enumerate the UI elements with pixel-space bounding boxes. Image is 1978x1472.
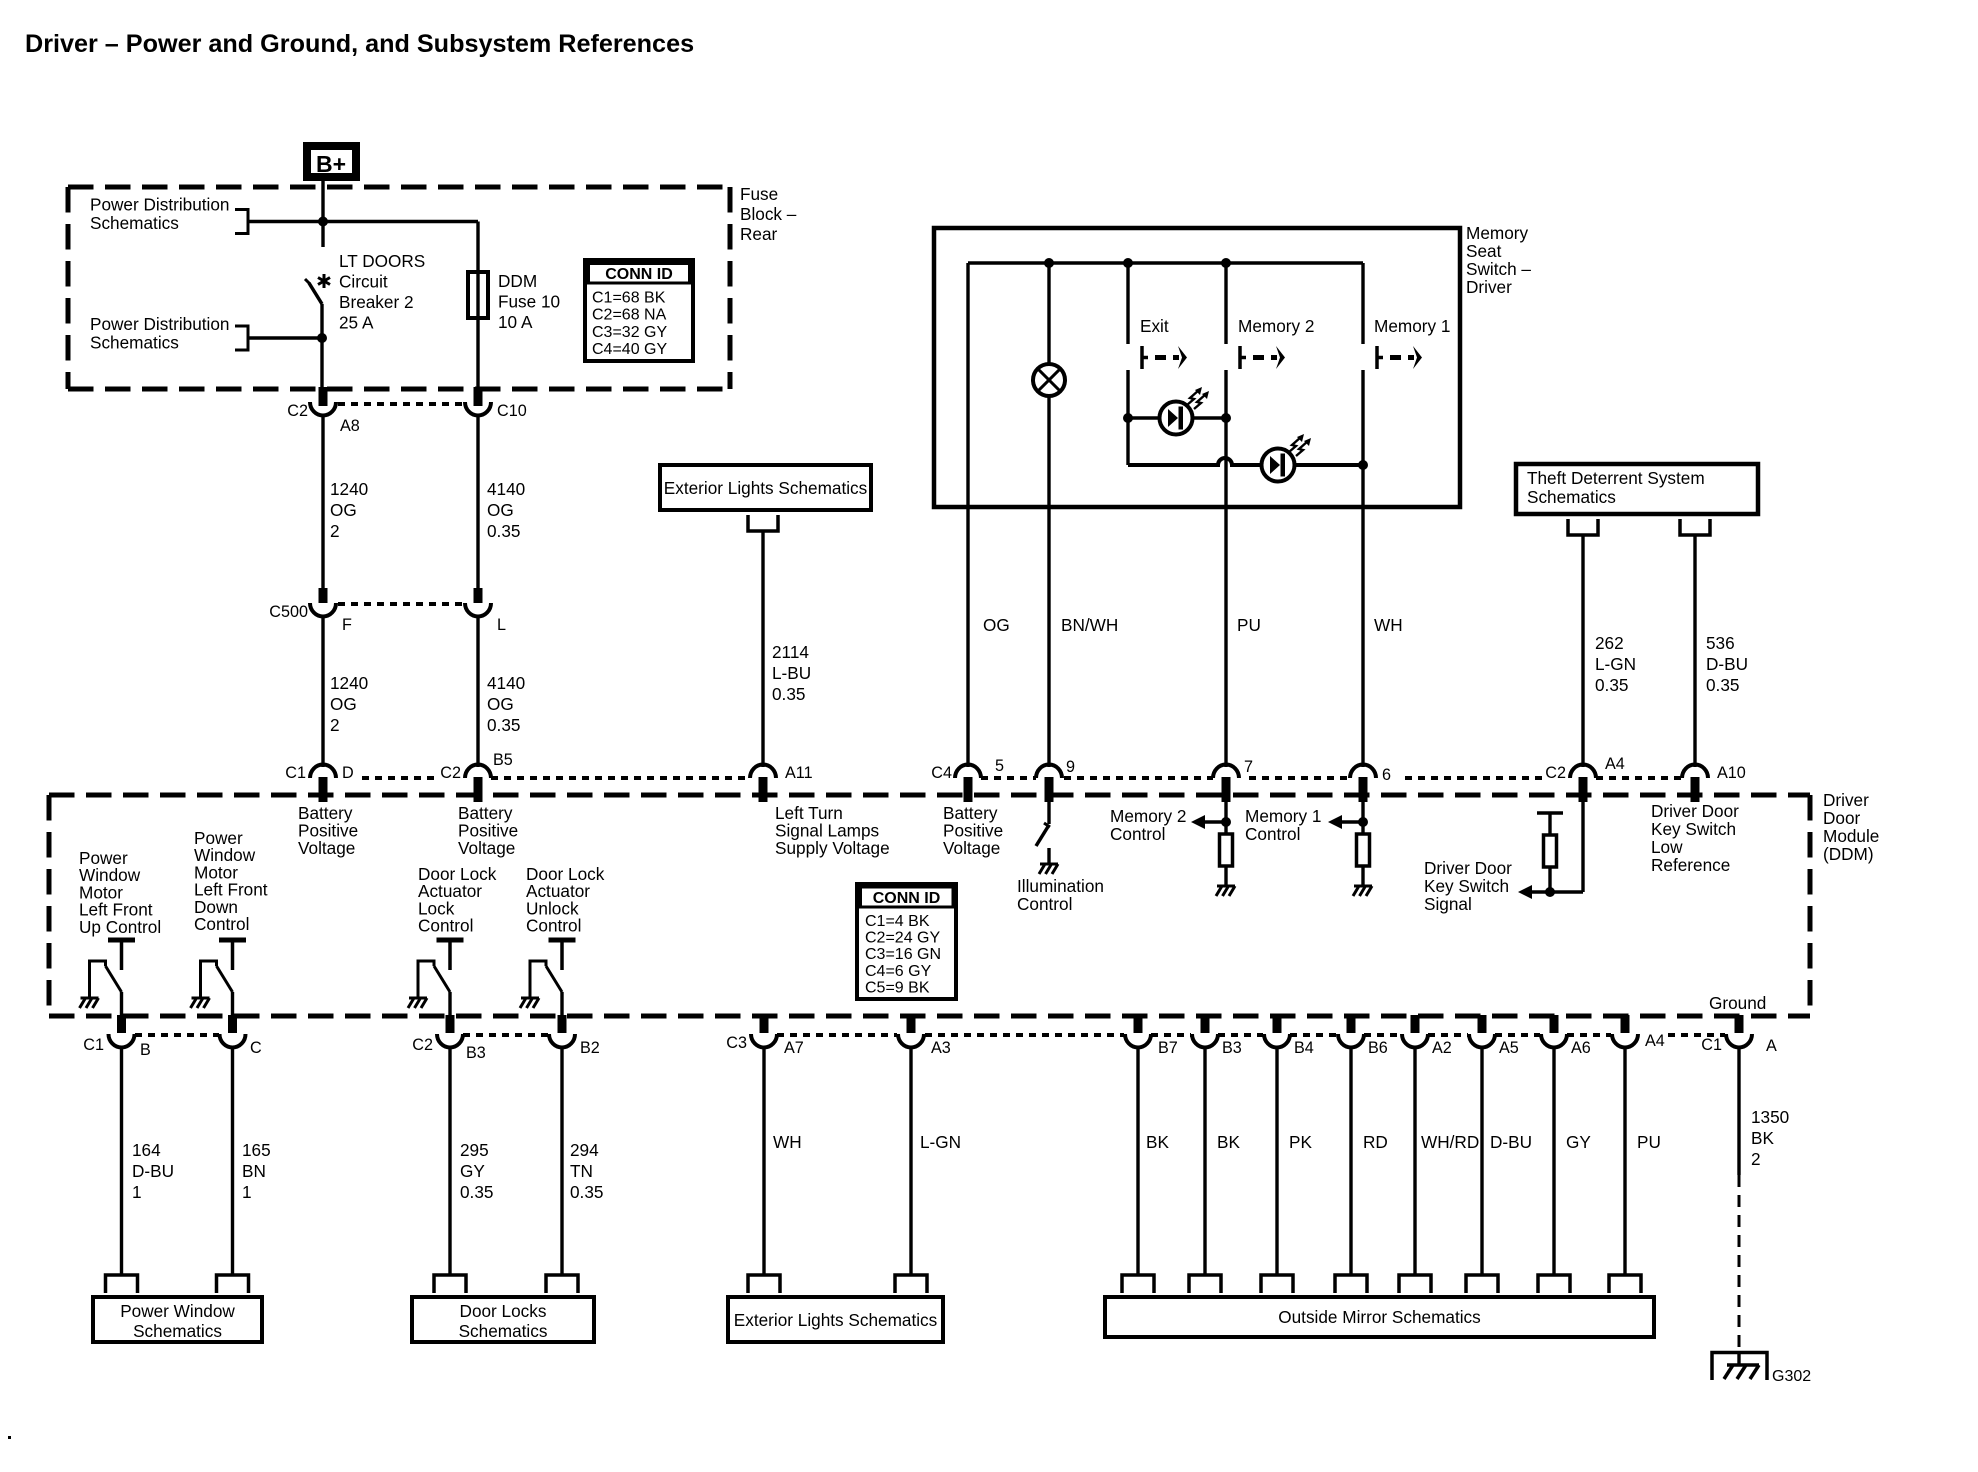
svg-text:0.35: 0.35 [1706, 675, 1739, 695]
svg-text:536: 536 [1706, 633, 1735, 653]
svg-text:C2=68 NA: C2=68 NA [592, 307, 667, 324]
svg-text:Voltage: Voltage [298, 838, 355, 858]
svg-text:0.35: 0.35 [570, 1182, 603, 1202]
svg-text:A8: A8 [340, 417, 360, 435]
svg-text:A4: A4 [1605, 755, 1625, 773]
svg-text:Power Distribution: Power Distribution [90, 314, 229, 334]
svg-text:PK: PK [1289, 1132, 1312, 1152]
svg-text:25 A: 25 A [339, 313, 374, 333]
svg-text:C4: C4 [931, 764, 952, 782]
svg-text:165: 165 [242, 1140, 271, 1160]
svg-text:C1: C1 [1701, 1036, 1722, 1054]
svg-text:Seat: Seat [1466, 241, 1502, 261]
svg-text:Driver: Driver [1466, 277, 1512, 297]
svg-text:CONN ID: CONN ID [605, 266, 673, 283]
svg-text:A10: A10 [1717, 764, 1746, 782]
svg-text:TN: TN [570, 1161, 593, 1181]
svg-text:Control: Control [1245, 824, 1300, 844]
svg-text:B3: B3 [466, 1044, 486, 1062]
svg-text:Control: Control [1110, 824, 1165, 844]
svg-text:Theft Deterrent System: Theft Deterrent System [1527, 468, 1705, 488]
svg-text:1: 1 [242, 1182, 252, 1202]
svg-text:A11: A11 [785, 764, 813, 782]
svg-text:Switch –: Switch – [1466, 259, 1531, 279]
svg-text:PU: PU [1637, 1132, 1661, 1152]
svg-text:C5=9 BK: C5=9 BK [865, 979, 930, 996]
svg-text:Control: Control [194, 914, 249, 934]
svg-text:BK: BK [1146, 1132, 1169, 1152]
svg-text:GY: GY [1566, 1132, 1591, 1152]
svg-text:WH: WH [1374, 615, 1403, 635]
svg-text:C3=32 GY: C3=32 GY [592, 324, 667, 341]
svg-text:Outside Mirror Schematics: Outside Mirror Schematics [1278, 1307, 1480, 1327]
svg-text:BN: BN [242, 1161, 266, 1181]
svg-text:Key Switch: Key Switch [1424, 876, 1509, 896]
svg-text:Schematics: Schematics [133, 1321, 222, 1341]
svg-text:B4: B4 [1294, 1039, 1314, 1057]
svg-text:0.35: 0.35 [460, 1182, 493, 1202]
svg-text:Power Distribution: Power Distribution [90, 195, 229, 215]
svg-text:0.35: 0.35 [1595, 675, 1628, 695]
svg-text:Fuse: Fuse [740, 184, 778, 204]
svg-text:6: 6 [1382, 766, 1391, 784]
svg-text:Control: Control [526, 916, 581, 936]
svg-text:BK: BK [1751, 1128, 1774, 1148]
svg-text:0.35: 0.35 [487, 521, 520, 541]
svg-text:Schematics: Schematics [459, 1321, 548, 1341]
svg-text:B2: B2 [580, 1039, 600, 1057]
svg-text:Driver – Power and Ground, and: Driver – Power and Ground, and Subsystem… [25, 30, 694, 58]
svg-text:C1=68 BK: C1=68 BK [592, 290, 666, 307]
svg-text:10 A: 10 A [498, 312, 533, 332]
svg-text:L-BU: L-BU [772, 663, 811, 683]
svg-text:C1=4 BK: C1=4 BK [865, 913, 930, 930]
svg-text:WH: WH [773, 1132, 802, 1152]
svg-text:C500: C500 [269, 603, 308, 621]
svg-text:1240: 1240 [330, 673, 368, 693]
svg-text:Door Locks: Door Locks [460, 1301, 547, 1321]
svg-text:Voltage: Voltage [943, 838, 1000, 858]
svg-text:9: 9 [1066, 758, 1075, 776]
svg-text:L-GN: L-GN [1595, 654, 1636, 674]
svg-text:C1: C1 [285, 764, 306, 782]
svg-text:5: 5 [995, 757, 1004, 775]
svg-text:1350: 1350 [1751, 1107, 1789, 1127]
svg-text:C2: C2 [440, 764, 461, 782]
svg-text:A4: A4 [1645, 1032, 1665, 1050]
svg-text:A: A [1766, 1037, 1777, 1055]
svg-text:Control: Control [418, 916, 473, 936]
svg-text:Memory 1: Memory 1 [1245, 806, 1321, 826]
svg-text:Module: Module [1823, 826, 1879, 846]
svg-text:A2: A2 [1432, 1039, 1452, 1057]
svg-text:B5: B5 [493, 751, 513, 769]
svg-text:0.35: 0.35 [487, 715, 520, 735]
svg-text:Door: Door [1823, 808, 1861, 828]
svg-text:Schematics: Schematics [90, 333, 179, 353]
svg-text:Driver Door: Driver Door [1651, 801, 1739, 821]
svg-text:Schematics: Schematics [1527, 487, 1616, 507]
svg-text:L-GN: L-GN [920, 1132, 961, 1152]
svg-text:Fuse 10: Fuse 10 [498, 292, 560, 312]
svg-text:D-BU: D-BU [1706, 654, 1748, 674]
svg-text:OG: OG [330, 694, 357, 714]
svg-text:D: D [342, 764, 354, 782]
svg-text:B: B [140, 1041, 151, 1059]
svg-text:A5: A5 [1499, 1039, 1519, 1057]
svg-text:1240: 1240 [330, 479, 368, 499]
svg-text:PU: PU [1237, 615, 1261, 635]
svg-text:4140: 4140 [487, 673, 525, 693]
svg-text:C2: C2 [1545, 764, 1566, 782]
svg-text:Memory 2: Memory 2 [1238, 316, 1314, 336]
svg-text:Power Window: Power Window [120, 1301, 235, 1321]
svg-text:OG: OG [983, 615, 1010, 635]
svg-text:WH/RD: WH/RD [1421, 1132, 1479, 1152]
svg-text:2114: 2114 [772, 642, 809, 662]
svg-text:Exterior Lights Schematics: Exterior Lights Schematics [734, 1310, 937, 1330]
svg-text:Circuit: Circuit [339, 272, 388, 292]
svg-text:C2: C2 [412, 1036, 433, 1054]
svg-text:C4=6 GY: C4=6 GY [865, 963, 932, 980]
svg-text:Memory: Memory [1466, 223, 1528, 243]
svg-text:A6: A6 [1571, 1039, 1591, 1057]
svg-text:7: 7 [1244, 758, 1253, 776]
svg-text:Supply Voltage: Supply Voltage [775, 838, 890, 858]
svg-text:164: 164 [132, 1140, 161, 1160]
svg-text:Voltage: Voltage [458, 838, 515, 858]
svg-text:Block –: Block – [740, 204, 797, 224]
svg-text:D-BU: D-BU [132, 1161, 174, 1181]
svg-text:DDM: DDM [498, 271, 537, 291]
svg-text:4140: 4140 [487, 479, 525, 499]
svg-text:Up Control: Up Control [79, 917, 161, 937]
svg-text:G302: G302 [1772, 1368, 1811, 1385]
svg-text:Illumination: Illumination [1017, 876, 1104, 896]
svg-text:A3: A3 [931, 1039, 951, 1057]
svg-text:1: 1 [132, 1182, 142, 1202]
svg-text:BK: BK [1217, 1132, 1240, 1152]
svg-text:LT DOORS: LT DOORS [339, 251, 425, 271]
svg-text:Rear: Rear [740, 224, 778, 244]
svg-text:C3: C3 [726, 1034, 747, 1052]
svg-text:B3: B3 [1222, 1039, 1242, 1057]
svg-text:C2: C2 [287, 402, 308, 420]
svg-text:OG: OG [487, 500, 514, 520]
svg-text:Driver: Driver [1823, 790, 1869, 810]
svg-text:B+: B+ [316, 151, 346, 177]
svg-text:C2=24 GY: C2=24 GY [865, 930, 940, 947]
svg-text:B7: B7 [1158, 1039, 1178, 1057]
svg-text:Memory 2: Memory 2 [1110, 806, 1186, 826]
svg-text:BN/WH: BN/WH [1061, 615, 1118, 635]
svg-text:L: L [497, 616, 506, 634]
svg-text:2: 2 [330, 521, 340, 541]
svg-text:D-BU: D-BU [1490, 1132, 1532, 1152]
svg-text:CONN ID: CONN ID [873, 890, 941, 907]
svg-text:Signal: Signal [1424, 894, 1472, 914]
svg-text:0.35: 0.35 [772, 684, 805, 704]
svg-text:2: 2 [1751, 1149, 1761, 1169]
svg-text:C10: C10 [497, 402, 527, 420]
svg-text:F: F [342, 616, 352, 634]
svg-text:C4=40 GY: C4=40 GY [592, 341, 667, 358]
svg-text:Exterior Lights Schematics: Exterior Lights Schematics [664, 478, 867, 498]
svg-text:RD: RD [1363, 1132, 1388, 1152]
svg-text:Control: Control [1017, 894, 1072, 914]
svg-text:OG: OG [330, 500, 357, 520]
svg-text:(DDM): (DDM) [1823, 844, 1874, 864]
svg-text:Key Switch: Key Switch [1651, 819, 1736, 839]
svg-text:GY: GY [460, 1161, 485, 1181]
svg-text:Memory 1: Memory 1 [1374, 316, 1450, 336]
svg-text:C3=16 GN: C3=16 GN [865, 946, 941, 963]
svg-text:A7: A7 [784, 1039, 804, 1057]
svg-text:Exit: Exit [1140, 316, 1169, 336]
svg-text:Driver Door: Driver Door [1424, 858, 1512, 878]
svg-text:2: 2 [330, 715, 340, 735]
svg-text:Low: Low [1651, 837, 1683, 857]
svg-text:262: 262 [1595, 633, 1624, 653]
svg-text:Reference: Reference [1651, 855, 1730, 875]
svg-text:B6: B6 [1368, 1039, 1388, 1057]
svg-text:C1: C1 [83, 1036, 104, 1054]
svg-text:Schematics: Schematics [90, 213, 179, 233]
svg-text:Ground: Ground [1709, 993, 1766, 1013]
svg-text:C: C [250, 1039, 262, 1057]
svg-text:OG: OG [487, 694, 514, 714]
svg-text:295: 295 [460, 1140, 489, 1160]
svg-text:294: 294 [570, 1140, 599, 1160]
svg-text:Breaker 2: Breaker 2 [339, 292, 414, 312]
